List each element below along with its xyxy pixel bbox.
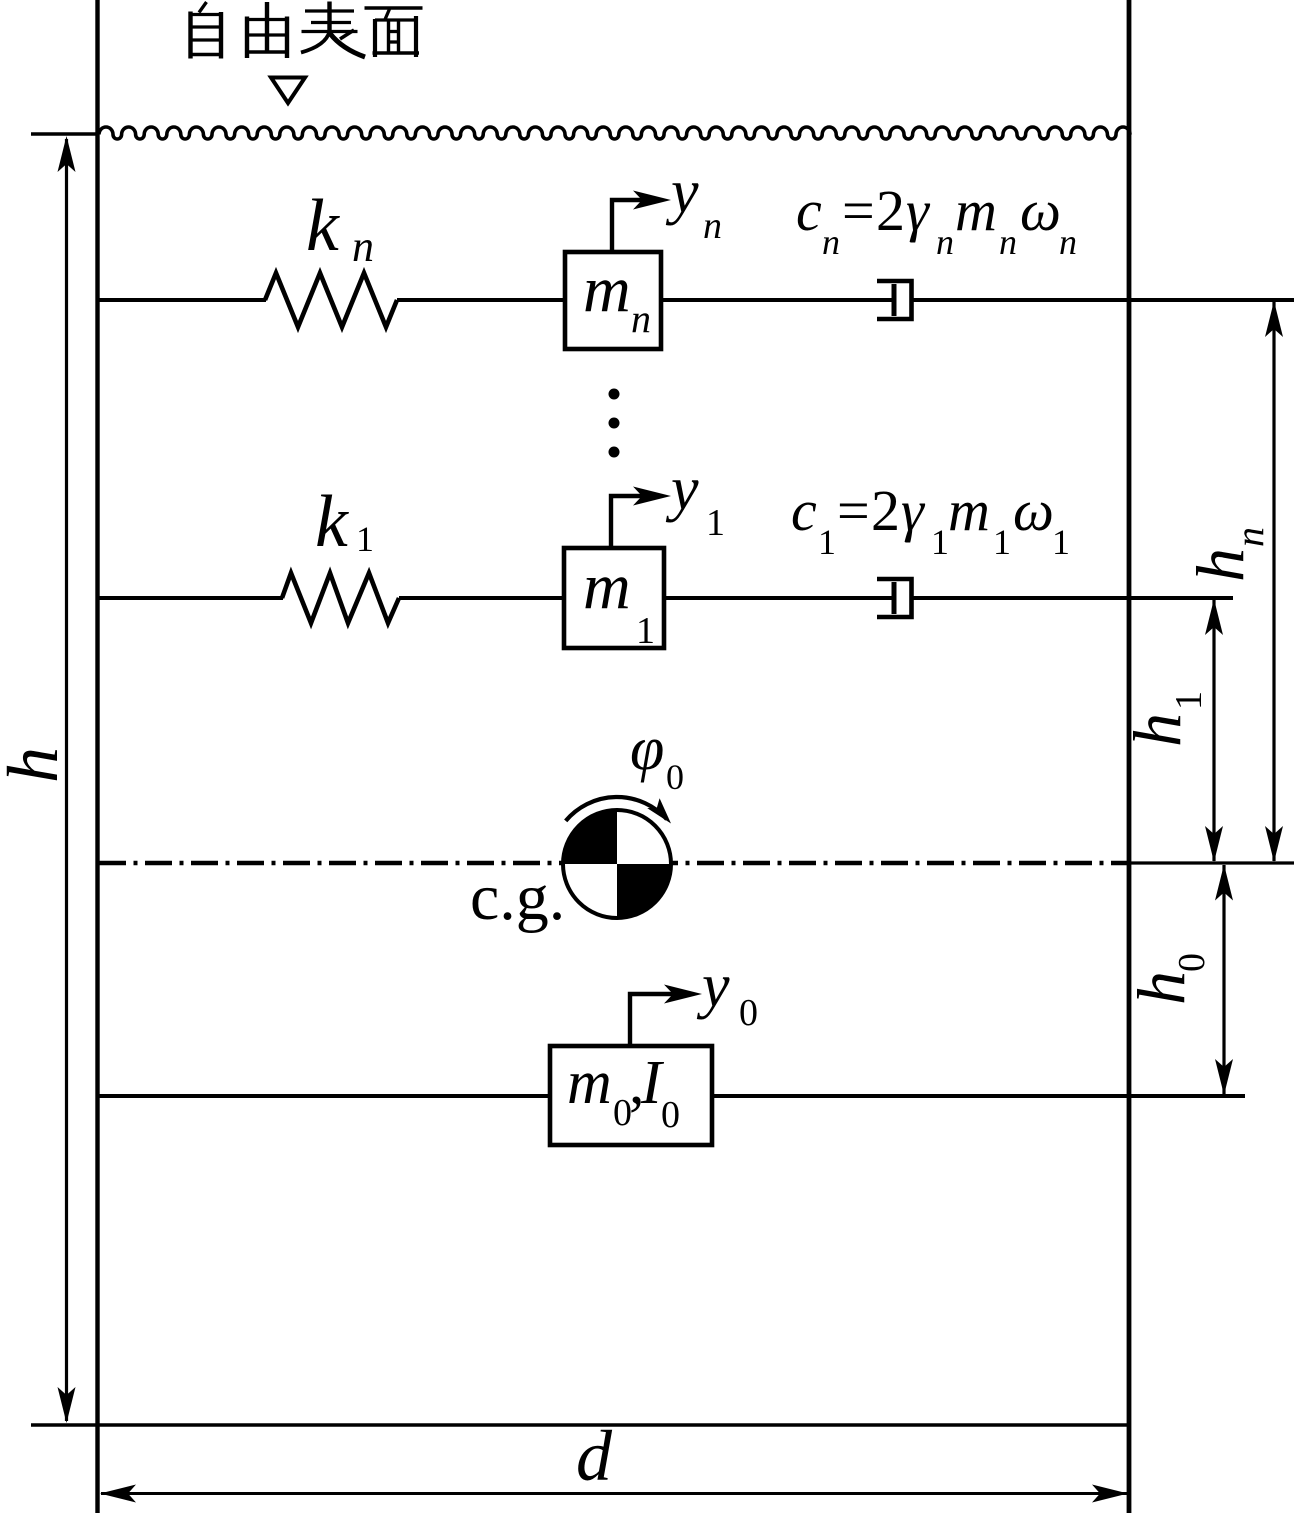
svg-text:c: c	[796, 178, 822, 243]
svg-text:h: h	[1182, 548, 1258, 582]
svg-text:γ: γ	[906, 178, 931, 243]
svg-text:1: 1	[636, 610, 655, 652]
svg-text:m: m	[955, 178, 997, 243]
svg-text:h: h	[0, 747, 73, 783]
svg-text:1: 1	[706, 502, 725, 544]
svg-text:y: y	[696, 952, 730, 1020]
svg-text:n: n	[631, 296, 651, 341]
svg-text:γ: γ	[901, 478, 926, 543]
svg-text:1: 1	[818, 522, 836, 562]
svg-text:n: n	[703, 205, 722, 247]
svg-text:m: m	[948, 478, 990, 543]
svg-text:φ: φ	[630, 715, 664, 783]
svg-text:y: y	[665, 455, 699, 523]
svg-text:m: m	[567, 1049, 612, 1117]
svg-text:n: n	[352, 222, 374, 271]
svg-text:ω: ω	[1020, 178, 1061, 243]
svg-text:ω: ω	[1013, 478, 1054, 543]
svg-text:k: k	[315, 481, 349, 563]
svg-text:y: y	[665, 158, 699, 226]
svg-text:=: =	[837, 478, 870, 543]
svg-text:d: d	[576, 1416, 613, 1496]
svg-text:=: =	[842, 178, 875, 243]
svg-text:n: n	[1227, 527, 1272, 547]
svg-text:1: 1	[1168, 691, 1210, 710]
svg-text:n: n	[822, 222, 840, 262]
svg-text:1: 1	[993, 522, 1011, 562]
svg-text:h: h	[1123, 971, 1199, 1005]
svg-text:0: 0	[666, 757, 684, 797]
svg-text:1: 1	[356, 519, 374, 559]
svg-text:2: 2	[871, 478, 900, 543]
svg-text:0: 0	[661, 1094, 680, 1136]
svg-text:1: 1	[931, 522, 949, 562]
svg-text:k: k	[306, 185, 340, 267]
svg-text:0: 0	[1171, 953, 1213, 972]
svg-text:n: n	[936, 222, 954, 262]
svg-text:2: 2	[876, 178, 905, 243]
svg-text:h: h	[1119, 713, 1195, 747]
svg-text:1: 1	[1052, 522, 1070, 562]
svg-text:m: m	[583, 550, 631, 623]
svg-text:n: n	[1059, 222, 1077, 262]
svg-text:m: m	[583, 253, 631, 326]
svg-text:c.g.: c.g.	[470, 861, 565, 934]
svg-text:0: 0	[739, 992, 758, 1034]
svg-text:n: n	[999, 222, 1017, 262]
svg-text:c: c	[791, 478, 817, 543]
